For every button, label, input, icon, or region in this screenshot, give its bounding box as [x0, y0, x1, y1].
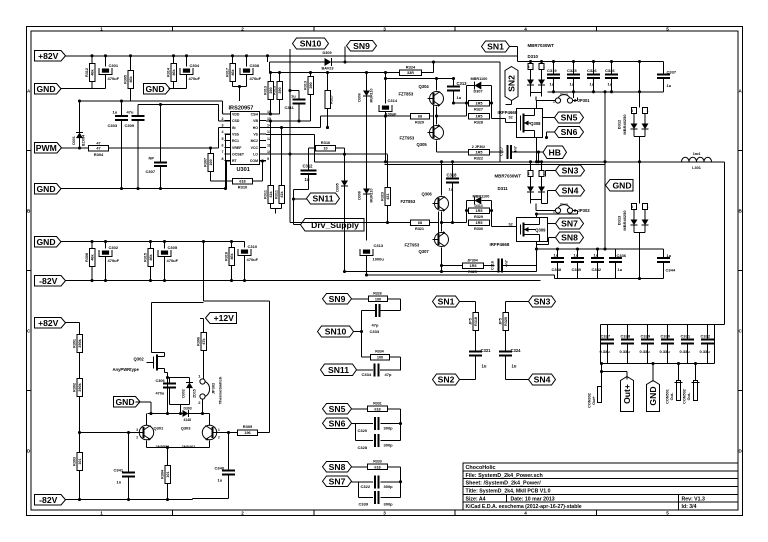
svg-text:VDD: VDD	[232, 113, 240, 117]
capacitor C309	[125, 105, 145, 189]
svg-text:SN11: SN11	[312, 194, 333, 204]
junction	[129, 54, 132, 57]
svg-text:2: 2	[218, 436, 220, 440]
svg-text:GND: GND	[612, 180, 631, 190]
junction	[399, 480, 402, 483]
svg-text:1u: 1u	[550, 82, 555, 87]
junction	[537, 160, 540, 163]
svg-text:2 JP302: 2 JP302	[472, 145, 485, 149]
capacitor C330	[660, 325, 675, 364]
svg-text:R329: R329	[474, 215, 483, 219]
svg-text:470uF: 470uF	[108, 76, 120, 81]
wire	[541, 162, 543, 171]
junction	[326, 126, 329, 129]
resistor R310	[233, 178, 253, 189]
wire	[380, 497, 400, 499]
wire	[505, 119, 507, 123]
junction	[651, 362, 654, 365]
svg-text:GND: GND	[36, 237, 55, 247]
svg-text:46k: 46k	[90, 253, 94, 260]
wire top bus	[518, 61, 664, 63]
svg-text:GND: GND	[36, 84, 55, 94]
global label SN10 (net)	[318, 326, 354, 337]
wire	[380, 423, 400, 425]
svg-text:R316: R316	[321, 140, 331, 145]
global label Drv_Supply	[301, 219, 365, 232]
wire	[537, 244, 549, 246]
capacitor C313b (1u)	[447, 79, 467, 104]
wire	[724, 162, 726, 325]
svg-text:Q303: Q303	[181, 426, 192, 431]
junction	[163, 240, 166, 243]
junction	[245, 54, 248, 57]
junction	[592, 60, 595, 63]
capacitor C342	[591, 249, 604, 279]
resistor R307	[203, 148, 213, 181]
svg-text:C342: C342	[592, 267, 602, 272]
svg-text:R323: R323	[380, 192, 384, 201]
wire	[388, 408, 401, 410]
wire	[390, 356, 401, 358]
wire	[517, 47, 519, 62]
global label SN9 (net)	[323, 294, 352, 305]
svg-text:C327: C327	[601, 334, 611, 339]
wire bank top bus	[601, 324, 725, 326]
svg-text:D308: D308	[358, 191, 362, 200]
svg-text:R314: R314	[166, 67, 170, 77]
wire	[577, 98, 579, 101]
junction	[529, 60, 532, 63]
junction	[556, 247, 559, 250]
wire	[66, 55, 518, 57]
wire	[270, 72, 400, 74]
svg-text:C340: C340	[215, 466, 225, 471]
svg-text:D309: D309	[323, 51, 332, 55]
svg-text:VSS: VSS	[232, 132, 240, 136]
global label SN3 (net)	[529, 296, 556, 307]
svg-text:C341: C341	[114, 468, 124, 473]
svg-text:0.33u: 0.33u	[660, 349, 671, 354]
junction	[552, 90, 555, 93]
svg-text:SN6: SN6	[329, 418, 346, 428]
svg-text:IRFP4668: IRFP4668	[498, 110, 518, 115]
capacitor C307	[146, 105, 168, 189]
wire	[433, 62, 435, 73]
junction	[465, 209, 468, 212]
wire	[502, 265, 537, 267]
svg-text:33R: 33R	[407, 71, 414, 75]
junction	[535, 160, 538, 163]
junction	[540, 160, 543, 163]
wire	[165, 372, 168, 374]
svg-text:C301: C301	[109, 63, 119, 68]
junction	[490, 101, 493, 104]
svg-text:FZT853: FZT853	[401, 199, 416, 204]
svg-text:470u: 470u	[156, 392, 165, 396]
wire	[639, 137, 641, 162]
label MBR7030WT (D310)	[528, 43, 555, 48]
svg-text:5: 5	[666, 26, 669, 31]
junction	[292, 197, 295, 200]
wire	[386, 78, 454, 80]
resistor R313a	[263, 73, 273, 115]
svg-text:1u: 1u	[482, 364, 487, 369]
wire	[539, 151, 544, 153]
svg-text:+12V: +12V	[214, 313, 235, 323]
wire	[352, 481, 359, 483]
wire	[536, 242, 538, 250]
junction	[592, 90, 595, 93]
wire	[109, 147, 219, 149]
junction	[552, 60, 555, 63]
capacitor C317	[500, 145, 518, 159]
power flag -82V (1)	[35, 276, 66, 287]
svg-text:10: 10	[323, 147, 327, 151]
zener D302	[182, 378, 197, 405]
svg-text:431: 431	[386, 193, 390, 199]
wire	[170, 377, 190, 379]
svg-text:1R5: 1R5	[476, 102, 483, 106]
wire	[260, 160, 267, 162]
resistor R311b	[274, 128, 284, 209]
wire	[510, 46, 518, 48]
capacitor C320	[358, 417, 394, 433]
svg-text:C313: C313	[374, 243, 384, 248]
wire	[530, 162, 532, 171]
junction	[537, 150, 540, 153]
svg-text:C329: C329	[641, 334, 651, 339]
wire	[430, 222, 439, 224]
svg-text:U301: U301	[237, 167, 250, 173]
wire	[466, 86, 468, 117]
svg-text:1: 1	[218, 428, 220, 432]
svg-text:SN4: SN4	[562, 186, 579, 196]
capacitor C326	[587, 62, 600, 92]
svg-text:Out-: Out-	[670, 392, 674, 401]
svg-text:+82V: +82V	[38, 51, 59, 61]
svg-text:300p: 300p	[384, 426, 394, 431]
wire	[602, 371, 628, 373]
junction	[224, 187, 227, 190]
wire top jog	[152, 302, 204, 304]
svg-text:C337: C337	[667, 70, 677, 75]
svg-text:46k: 46k	[129, 75, 133, 82]
wire	[530, 93, 532, 97]
svg-text:Open: Open	[560, 202, 568, 206]
junction	[166, 498, 169, 501]
wire	[352, 423, 356, 425]
capacitor C334	[362, 363, 392, 377]
junction	[309, 71, 312, 74]
junction	[535, 247, 538, 250]
svg-text:100: 100	[209, 159, 213, 165]
svg-text:1u: 1u	[618, 267, 623, 272]
wire GND2	[169, 88, 187, 90]
wire	[460, 379, 476, 381]
svg-text:GND: GND	[648, 386, 658, 405]
svg-text:LO: LO	[253, 152, 258, 156]
svg-text:SN3: SN3	[562, 166, 579, 176]
svg-text:R305: R305	[123, 75, 127, 84]
svg-text:MBR1100: MBR1100	[471, 77, 488, 81]
svg-text:D307: D307	[474, 90, 483, 94]
wire	[336, 147, 345, 149]
resistor R312	[85, 56, 95, 89]
svg-text:Q305: Q305	[417, 142, 428, 147]
svg-text:R309: R309	[243, 424, 253, 429]
svg-text:KiCad E.D.A. eeschema (2012-a: KiCad E.D.A. eeschema (2012-apr-16-27)-s…	[466, 504, 582, 510]
resistor R329	[411, 113, 430, 124]
wire	[275, 209, 277, 214]
svg-text:C322: C322	[361, 484, 371, 489]
wire	[227, 160, 231, 162]
wire emitter join	[437, 107, 467, 125]
wire emitter join lower	[442, 212, 467, 232]
resistor R313c	[303, 73, 313, 122]
svg-text:1u: 1u	[218, 478, 223, 483]
wire	[380, 440, 400, 442]
capacitor C344	[657, 249, 676, 279]
capacitor C328b	[358, 434, 394, 450]
junction	[343, 270, 346, 273]
junction	[127, 498, 130, 501]
wire	[436, 79, 438, 91]
junction	[576, 247, 579, 250]
wire	[511, 101, 513, 105]
wire	[639, 62, 641, 92]
svg-text:SN2: SN2	[438, 375, 455, 385]
wire	[466, 201, 468, 223]
wire	[226, 134, 231, 136]
wire	[359, 497, 374, 499]
svg-text:R328: R328	[474, 120, 483, 124]
resistor R303	[72, 453, 82, 500]
svg-text:D301: D301	[72, 136, 76, 145]
svg-text:4: 4	[524, 511, 527, 516]
resistor R323	[380, 155, 390, 223]
svg-text:Q302: Q302	[134, 357, 145, 362]
svg-text:1R5: 1R5	[476, 115, 483, 119]
junction	[452, 101, 455, 104]
svg-text:IN: IN	[232, 126, 236, 130]
svg-text:4: 4	[524, 26, 527, 31]
svg-text:R304: R304	[94, 152, 104, 157]
wire	[388, 298, 401, 300]
wire base join Q304/Q305	[433, 105, 435, 128]
svg-text:390: 390	[309, 82, 313, 88]
wire	[380, 481, 400, 483]
wire	[352, 408, 368, 410]
svg-text:0.33u: 0.33u	[680, 349, 691, 354]
svg-text:Q308: Q308	[530, 121, 541, 126]
junction	[399, 422, 402, 425]
svg-text:C332: C332	[701, 334, 711, 339]
resistor R330a	[469, 208, 490, 219]
power flag GND (mid)	[606, 180, 634, 192]
capacitor C301	[99, 56, 120, 89]
svg-text:R302: R302	[72, 383, 76, 392]
vertical flag Out+	[621, 377, 634, 412]
wire	[506, 226, 517, 228]
wire	[271, 208, 282, 210]
wire	[547, 191, 549, 204]
wire bottom row bottom bus	[555, 278, 664, 280]
svg-text:101: 101	[78, 458, 82, 464]
junction	[166, 376, 169, 379]
junction	[440, 160, 443, 163]
svg-text:196: 196	[244, 431, 250, 435]
svg-text:C302: C302	[109, 245, 119, 250]
svg-text:47k: 47k	[202, 337, 206, 344]
wire	[542, 203, 548, 205]
wire	[293, 190, 295, 225]
junction	[269, 112, 272, 115]
global label SN6 (net)	[323, 418, 352, 429]
wire	[267, 56, 269, 62]
svg-text:GND: GND	[36, 184, 55, 194]
resistor R304	[89, 142, 109, 158]
wire	[358, 482, 360, 498]
svg-text:C334: C334	[362, 372, 372, 377]
label MBR1100 (D3xx)	[473, 195, 490, 209]
svg-text:5: 5	[222, 137, 224, 141]
svg-text:SN2: SN2	[507, 75, 517, 92]
wire	[554, 275, 556, 279]
wire collectors	[147, 414, 210, 426]
resistor R311a	[263, 121, 273, 209]
junction	[202, 240, 205, 243]
wire	[400, 357, 402, 371]
capacitor C341	[114, 433, 136, 500]
wire	[354, 331, 362, 333]
junction	[238, 85, 241, 88]
junction	[343, 153, 346, 156]
wire	[138, 104, 219, 106]
transistor Q301	[136, 425, 170, 449]
capacitor C333	[370, 304, 380, 334]
svg-text:D312: D312	[617, 119, 622, 129]
capacitor C311	[285, 91, 306, 122]
label D310	[528, 54, 539, 59]
junction	[638, 277, 641, 280]
resistor R3em	[160, 466, 170, 500]
wire	[65, 322, 80, 324]
wire	[492, 118, 506, 120]
inductor L301	[682, 152, 725, 170]
global label SN6 (Q308)	[555, 127, 584, 138]
flag HB	[543, 146, 567, 159]
junction	[603, 160, 606, 163]
label MBR7030WT (D311)	[495, 174, 522, 179]
svg-text:1: 1	[100, 511, 103, 516]
svg-text:1u: 1u	[457, 95, 462, 100]
wire	[491, 201, 493, 227]
svg-text:R331: R331	[373, 402, 382, 406]
wire	[309, 147, 316, 149]
wire	[356, 423, 374, 425]
svg-text:1u: 1u	[512, 364, 517, 369]
diode D307 MBR1100	[467, 77, 492, 94]
svg-text:R327: R327	[474, 107, 483, 111]
wire	[536, 249, 538, 272]
svg-text:PWM: PWM	[36, 143, 57, 153]
svg-text:CSD: CSD	[232, 119, 240, 123]
wire	[536, 100, 555, 102]
capacitor C305	[158, 242, 179, 281]
global label SN11 (mid)	[307, 193, 340, 204]
svg-text:4: 4	[222, 130, 224, 134]
wire	[484, 265, 495, 267]
svg-text:CON302: CON302	[588, 393, 592, 408]
global label SN3	[556, 165, 585, 176]
wire	[531, 61, 542, 63]
wire	[475, 302, 477, 313]
svg-text:5: 5	[666, 511, 669, 516]
svg-text:3: 3	[528, 172, 530, 176]
svg-text:R326: R326	[373, 292, 382, 296]
svg-text:GND: GND	[115, 397, 134, 407]
wire	[150, 402, 152, 414]
transistor Q303	[181, 425, 220, 449]
svg-text:C331: C331	[681, 334, 691, 339]
wire	[200, 318, 204, 320]
svg-text:C310: C310	[248, 244, 258, 249]
wire	[223, 113, 231, 115]
svg-text:Out+: Out+	[592, 395, 596, 405]
diode D305	[336, 148, 349, 272]
wire	[530, 200, 532, 204]
dual schottky D312	[617, 108, 649, 137]
svg-text:IRS20957: IRS20957	[229, 106, 254, 112]
wire -82V rail	[65, 280, 541, 282]
svg-text:R310: R310	[238, 184, 248, 189]
junction	[78, 431, 81, 434]
wire	[506, 301, 529, 303]
svg-text:R311: R311	[263, 190, 267, 199]
svg-text:1u: 1u	[590, 82, 595, 87]
wire	[538, 152, 540, 162]
global label SN2 (net)	[433, 374, 460, 385]
global label SN8 (Q309)	[556, 232, 584, 243]
svg-text:41k: 41k	[280, 190, 284, 197]
junction	[149, 240, 152, 243]
svg-text:Drv_Supply: Drv_Supply	[311, 220, 359, 230]
svg-text:618: 618	[239, 180, 245, 184]
junction	[384, 114, 387, 117]
junction	[104, 54, 107, 57]
wire	[400, 409, 402, 441]
junction	[269, 119, 272, 122]
svg-text:1u: 1u	[570, 82, 575, 87]
svg-text:R306: R306	[196, 337, 200, 346]
wire HB rail	[315, 161, 717, 163]
diode D309	[322, 51, 334, 71]
wire	[626, 372, 628, 380]
wire +12 jog	[204, 300, 270, 302]
resistor R317	[225, 56, 235, 87]
wire	[536, 214, 538, 218]
junction	[545, 136, 548, 139]
svg-text:1u: 1u	[574, 253, 579, 258]
junction	[677, 362, 680, 365]
power flag GND (1)	[35, 84, 62, 95]
svg-text:D305: D305	[336, 183, 340, 192]
capacitor C337	[657, 62, 677, 92]
svg-text:1u: 1u	[594, 253, 599, 258]
wire	[266, 113, 280, 115]
global label SN11 (net)	[321, 364, 357, 376]
wire	[266, 134, 315, 136]
